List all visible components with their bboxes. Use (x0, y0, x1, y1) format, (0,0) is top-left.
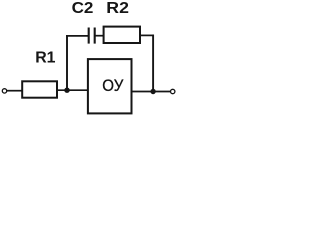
svg-text:R2: R2 (106, 0, 129, 17)
svg-text:R1: R1 (35, 50, 55, 67)
wire node A up (66, 35, 68, 90)
input terminal (2, 89, 6, 93)
capacitor C2 (89, 28, 95, 44)
wire C2 to R2 (95, 35, 104, 37)
svg-text:ОУ: ОУ (102, 77, 124, 95)
output terminal (171, 89, 175, 93)
wire top-left to C2 (66, 35, 88, 37)
resistor R1 (22, 81, 57, 97)
node B junction (150, 89, 155, 94)
wire right leg down to node B (152, 35, 154, 92)
op-amp U1 (88, 59, 132, 113)
wire R2 to right leg (140, 34, 154, 36)
wire op-amp output (132, 91, 171, 93)
resistor R2 (104, 27, 140, 43)
node A junction (64, 88, 69, 93)
wire input to R1 (7, 90, 22, 92)
wire R1 to op-amp (57, 89, 88, 91)
svg-text:C2: C2 (72, 0, 94, 17)
